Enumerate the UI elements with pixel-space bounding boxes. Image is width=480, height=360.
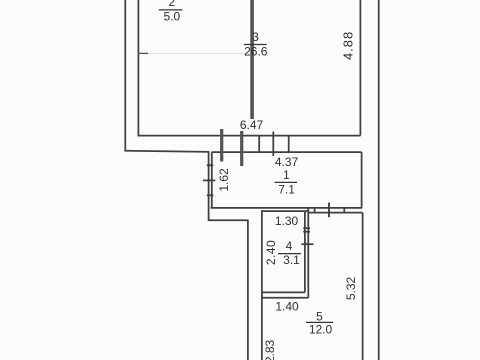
label room 3 fraction bar xyxy=(244,44,267,46)
svg-text:1.30: 1.30 xyxy=(275,214,299,228)
wire room 1 left wall inner xyxy=(211,152,213,208)
wire room 4 right wall outer xyxy=(307,208,309,298)
wire rooms 2/3 bottom wall xyxy=(138,135,361,137)
svg-text:6.47: 6.47 xyxy=(240,118,264,132)
thick door tick 2 on corridor wall xyxy=(240,131,243,166)
svg-text:1.40: 1.40 xyxy=(275,300,299,314)
wire connector room1/room5 B xyxy=(343,208,345,213)
wire connector room1/room5 A xyxy=(314,208,316,213)
label room 1 fraction bar xyxy=(275,181,298,183)
wire wall room1/room5 lower line xyxy=(308,212,362,214)
label room 2 fraction bar xyxy=(159,9,183,11)
wire dimension tick 1.62 xyxy=(203,179,215,181)
wire room4 right wall door tick upper xyxy=(303,227,310,229)
tick at left end of faint line xyxy=(138,52,148,54)
wire room 3 right wall xyxy=(359,0,361,136)
wire room 1 left wall outer xyxy=(208,152,210,220)
wire room 4 top wall xyxy=(262,210,308,212)
faint pencil line between room 2 and room 3 xyxy=(147,53,251,55)
thick door tick 1 on corridor wall xyxy=(220,129,223,162)
wire room 4 / room 5 left wall xyxy=(261,210,263,360)
svg-text:2.83: 2.83 xyxy=(263,339,277,360)
svg-text:1.62: 1.62 xyxy=(217,168,231,192)
wire room 4 right wall inner xyxy=(304,211,306,292)
wire outer boundary step horizontal xyxy=(208,219,248,221)
svg-text:5.0: 5.0 xyxy=(164,10,181,24)
svg-text:4.37: 4.37 xyxy=(275,155,299,169)
wire dimension tick 4.37 xyxy=(272,132,274,157)
wire room 1 bottom wall xyxy=(211,207,363,209)
label room 4 fraction bar xyxy=(278,253,301,255)
wire left outer wall vertical xyxy=(125,0,209,152)
wire corridor cell connector B xyxy=(288,136,290,153)
svg-text:2.40: 2.40 xyxy=(264,240,278,265)
svg-text:3: 3 xyxy=(252,30,259,44)
svg-text:4.88: 4.88 xyxy=(341,31,356,60)
svg-text:3.1: 3.1 xyxy=(283,253,300,267)
svg-text:26.6: 26.6 xyxy=(244,45,268,59)
wire outer boundary left vertical to bottom xyxy=(247,220,249,360)
wire dimension tick 2.40 xyxy=(301,243,313,245)
wire room 4 bottom wall outer xyxy=(262,297,308,299)
wire room 5 right wall xyxy=(362,213,364,360)
wire outer right line full height xyxy=(378,0,380,360)
wire room1 left wall tick upper xyxy=(207,164,214,166)
svg-text:5: 5 xyxy=(316,309,323,323)
svg-text:4: 4 xyxy=(286,239,293,253)
svg-text:5.32: 5.32 xyxy=(344,276,358,300)
svg-text:12.0: 12.0 xyxy=(309,323,333,337)
wire room4 right wall door tick lower xyxy=(303,231,310,233)
svg-text:7.1: 7.1 xyxy=(278,183,295,197)
wire corridor cell connector A xyxy=(258,136,260,153)
wire door tick room1/room5 xyxy=(328,203,330,218)
wire left inner wall vertical xyxy=(137,0,139,136)
label room 5 fraction bar xyxy=(306,321,333,323)
wire room 1 right wall xyxy=(361,152,363,208)
wire corridor lower wall (room 1 top) xyxy=(212,151,362,153)
thick divider wall rooms 2/3 xyxy=(250,0,254,119)
svg-text:2: 2 xyxy=(168,0,175,9)
wire room 4 bottom wall inner xyxy=(262,291,305,293)
wire room1 left wall tick lower xyxy=(207,194,214,196)
svg-text:1: 1 xyxy=(283,168,290,182)
